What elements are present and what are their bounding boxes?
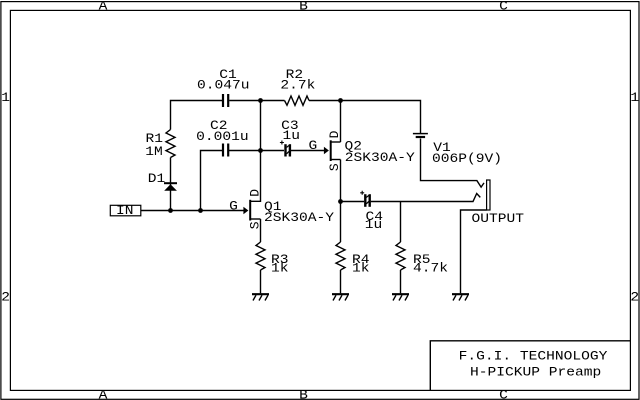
wire R3 to ground — [260, 270, 262, 293]
svg-text:2: 2 — [1, 290, 10, 305]
svg-text:D: D — [247, 189, 262, 197]
wire battery minus to jack tip — [421, 139, 485, 188]
jack barrel — [487, 180, 490, 210]
wire R1 to IN row — [170, 158, 172, 211]
resistor R3 — [256, 242, 265, 270]
node junction R2/Q2-drain — [338, 98, 343, 103]
svg-text:H-PICKUP Preamp: H-PICKUP Preamp — [470, 365, 601, 380]
capacitor C4 polarized — [360, 191, 370, 207]
wire Q1 drain vertical — [251, 101, 261, 202]
ground jack — [452, 294, 469, 300]
svg-text:2: 2 — [630, 290, 639, 305]
wire C4 row to jack sleeve — [341, 194, 481, 202]
svg-text:C: C — [499, 0, 508, 14]
transistor Q1 2SK30A-Y — [250, 200, 260, 221]
svg-text:D: D — [327, 130, 342, 138]
battery V1 — [413, 134, 428, 137]
ground R4 — [332, 294, 349, 300]
svg-text:2SK30A-Y: 2SK30A-Y — [264, 210, 334, 225]
svg-text:0.047u: 0.047u — [197, 78, 250, 93]
svg-text:F.G.I. TECHNOLOGY: F.G.I. TECHNOLOGY — [459, 349, 608, 364]
resistor R2 — [285, 96, 310, 105]
wire C3 to Q2 gate — [291, 150, 324, 152]
capacitor C1 — [223, 94, 228, 107]
wire R5 leg — [400, 202, 402, 243]
wire R2 to battery — [309, 101, 421, 134]
wire C2 to C3 — [228, 150, 284, 152]
svg-text:A: A — [99, 0, 108, 14]
wire C1 to R2 — [229, 100, 284, 102]
svg-text:4.7k: 4.7k — [413, 260, 448, 275]
svg-text:006P(9V): 006P(9V) — [432, 151, 502, 166]
wire top rail left segment — [171, 101, 223, 130]
diode D1 — [164, 183, 177, 191]
ground R5 — [392, 294, 409, 300]
capacitor C2 — [223, 144, 228, 157]
resistor R5 — [396, 242, 405, 270]
wire IN row — [141, 210, 244, 212]
wire Q2 drain to rail — [340, 101, 342, 143]
port IN — [110, 203, 141, 218]
resistor R1 — [166, 130, 175, 158]
svg-text:B: B — [299, 0, 308, 14]
svg-text:G: G — [229, 199, 238, 214]
svg-text:1M: 1M — [145, 144, 163, 159]
svg-text:2SK30A-Y: 2SK30A-Y — [345, 150, 415, 165]
svg-text:C: C — [499, 387, 508, 400]
node junction Q2-source/C4/R4 — [338, 199, 343, 204]
svg-text:1: 1 — [630, 90, 639, 105]
node junction C1/R2/Q1-drain — [258, 98, 263, 103]
node junction C2/IN — [198, 208, 203, 213]
svg-text:OUTPUT: OUTPUT — [472, 211, 525, 226]
svg-text:B: B — [299, 387, 308, 400]
svg-text:IN: IN — [116, 203, 134, 218]
svg-text:1u: 1u — [365, 217, 383, 232]
Q2 gate arrow — [324, 147, 329, 154]
svg-text:0.001u: 0.001u — [196, 129, 249, 144]
svg-text:S: S — [327, 163, 342, 171]
ground R3 — [252, 294, 269, 300]
capacitor C3 polarized — [280, 141, 290, 157]
Q1 gate arrow — [243, 207, 248, 214]
svg-text:2.7k: 2.7k — [280, 78, 315, 93]
svg-text:G: G — [309, 138, 318, 153]
node junction D1/IN — [168, 208, 173, 213]
wire jack to ground — [461, 210, 487, 293]
svg-text:1k: 1k — [271, 260, 289, 275]
node junction C2/C3/Q1-drain — [258, 148, 263, 153]
svg-text:D1: D1 — [148, 171, 166, 186]
title block — [430, 341, 630, 391]
wire R4 to ground — [340, 270, 342, 293]
svg-text:1k: 1k — [352, 260, 370, 275]
resistor R4 — [336, 242, 345, 270]
svg-text:A: A — [99, 387, 108, 400]
svg-text:1u: 1u — [283, 128, 301, 143]
svg-text:1: 1 — [1, 90, 10, 105]
wire C2 left leg — [201, 151, 223, 211]
transistor Q2 2SK30A-Y — [331, 140, 341, 161]
wire Q2 source down through C4 node to R4 — [340, 160, 342, 243]
wire Q1 source to R3 — [260, 219, 262, 242]
wire R5 to ground — [400, 270, 402, 293]
